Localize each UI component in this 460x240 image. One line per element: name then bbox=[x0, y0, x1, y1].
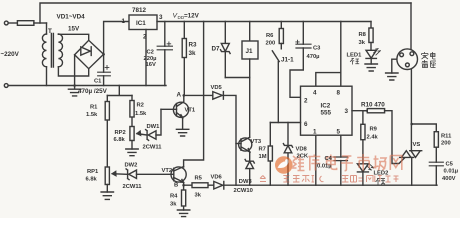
RP1 wiper arrowhead bbox=[112, 172, 116, 176]
capacitor C3 plates bbox=[296, 44, 311, 48]
transistor VT1 base bar bbox=[176, 104, 178, 117]
VT2 emitter bbox=[174, 178, 184, 186]
relay J1 box bbox=[242, 41, 258, 59]
rail corner into R8 bbox=[370, 22, 372, 29]
watermark overlay bbox=[260, 154, 402, 182]
RP2 bottom lead bbox=[131, 141, 133, 150]
svg-text:470µ /25V: 470µ /25V bbox=[78, 88, 108, 95]
VT3 emitter lead bbox=[249, 152, 251, 161]
svg-text:LED2: LED2 bbox=[374, 170, 389, 176]
IC1 pin2 lead bbox=[145, 30, 147, 86]
VT1 circle bbox=[173, 102, 188, 117]
triac VS bbox=[400, 151, 422, 158]
pin6 wire bbox=[270, 122, 300, 124]
potentiometer RP1 bbox=[105, 167, 109, 185]
IC2 pin3 wire bbox=[352, 110, 367, 112]
node B dot bbox=[182, 184, 185, 187]
svg-text:VD1~VD4: VD1~VD4 bbox=[57, 14, 86, 21]
wire R10 to triac gate bbox=[385, 111, 405, 164]
svg-text:C3: C3 bbox=[313, 45, 321, 51]
wire top 220V rail bbox=[40, 3, 411, 23]
svg-text:1M: 1M bbox=[259, 154, 267, 160]
svg-text:C2: C2 bbox=[147, 50, 154, 56]
svg-text:400V: 400V bbox=[442, 176, 456, 182]
svg-text:C1: C1 bbox=[94, 79, 102, 85]
diode VD5 bbox=[213, 92, 224, 100]
svg-text:2CW11: 2CW11 bbox=[123, 184, 143, 190]
resistor R9 bbox=[361, 124, 365, 139]
ground under RP1 bbox=[101, 192, 113, 199]
watermark big row bbox=[292, 154, 402, 171]
svg-text:DW2: DW2 bbox=[125, 163, 138, 169]
triac bottom lead bbox=[411, 157, 413, 185]
svg-text:1: 1 bbox=[122, 18, 126, 25]
zener VD8 bbox=[283, 144, 292, 153]
svg-text:C5: C5 bbox=[446, 161, 454, 167]
socket rail upper bbox=[410, 3, 412, 49]
svg-text:555: 555 bbox=[321, 110, 332, 117]
VT3 emitter arrow bbox=[247, 149, 250, 152]
socket rail lower bbox=[410, 69, 412, 150]
resistor R7 bbox=[268, 146, 272, 161]
char cha bbox=[422, 60, 429, 68]
transformer core bbox=[51, 34, 53, 68]
svg-text:3k: 3k bbox=[170, 202, 177, 208]
zener DW2 bbox=[126, 169, 136, 180]
VT1 emitter arrow bbox=[180, 115, 183, 118]
input terminal N bbox=[4, 84, 8, 88]
svg-text:VT2: VT2 bbox=[162, 168, 173, 174]
socket left wire bbox=[392, 59, 397, 73]
C3 bottom zigzag to pin2 bbox=[290, 48, 303, 97]
svg-text:8: 8 bbox=[337, 90, 341, 97]
resistor R4 bbox=[182, 190, 186, 206]
svg-text:DW3: DW3 bbox=[239, 179, 253, 185]
svg-text:220µ: 220µ bbox=[144, 56, 157, 62]
watermark small row bbox=[260, 176, 399, 183]
svg-text:3: 3 bbox=[159, 14, 163, 21]
VT3 circle bbox=[239, 138, 252, 151]
svg-text:6.8k: 6.8k bbox=[114, 137, 126, 143]
svg-text:200: 200 bbox=[441, 140, 451, 146]
wire secondary bottom to bridge bbox=[58, 67, 88, 76]
svg-text:RP2: RP2 bbox=[115, 130, 126, 136]
svg-text:200: 200 bbox=[266, 40, 276, 46]
input terminal L bbox=[4, 21, 8, 25]
relay J1 lead bottom to VT3 bbox=[249, 59, 251, 137]
capacitor C1 plates bbox=[98, 72, 111, 76]
resistor R2 leads bbox=[131, 96, 133, 127]
potentiometer RP2 bbox=[130, 127, 134, 141]
resistor R1 leads bbox=[106, 96, 108, 168]
C1 plus sign bbox=[105, 66, 109, 70]
wire D7 to J1 line bbox=[225, 77, 249, 79]
char jia bbox=[422, 52, 429, 59]
svg-text:3k: 3k bbox=[189, 50, 197, 57]
VT1 emitter bbox=[177, 113, 183, 130]
svg-text:J1-1: J1-1 bbox=[281, 57, 294, 64]
bridge inner diode bbox=[81, 47, 91, 56]
svg-text:3k: 3k bbox=[195, 193, 202, 199]
resistor R1 bbox=[105, 102, 109, 121]
12V rail from IC1 pin3 bbox=[157, 21, 371, 23]
IC2 pin5 lead bbox=[340, 135, 342, 185]
DW1 to VT1 base riser bbox=[156, 109, 161, 135]
R8 to LED1 lead bbox=[370, 43, 372, 51]
svg-text:C4: C4 bbox=[325, 156, 333, 162]
resistor R2 bbox=[130, 101, 134, 118]
resistor R8 bbox=[369, 28, 373, 43]
svg-text:2: 2 bbox=[304, 98, 308, 105]
transistor VT3 bbox=[241, 137, 250, 152]
VT2 collector bbox=[174, 167, 184, 172]
svg-text:R4: R4 bbox=[170, 194, 178, 200]
node R9 junction bbox=[366, 109, 369, 112]
bridge rectifier VD1~VD4 diamond bbox=[75, 40, 104, 68]
svg-text:A: A bbox=[177, 92, 182, 99]
wire node A row bbox=[184, 94, 213, 96]
text red CJK bbox=[350, 59, 359, 65]
LED2 bottom lead bbox=[362, 172, 364, 185]
wire VD5 to VT3 base riser bbox=[223, 95, 236, 185]
VT2 emitter arrow bbox=[181, 179, 184, 182]
R11 branch wire bbox=[412, 124, 437, 132]
VT3 base stub bbox=[236, 143, 241, 145]
svg-text:3: 3 bbox=[345, 108, 349, 115]
ground under LED1 bbox=[365, 64, 377, 71]
svg-text:DW1: DW1 bbox=[147, 124, 161, 130]
svg-text:6.8k: 6.8k bbox=[86, 176, 98, 182]
transformer T primary winding bbox=[42, 34, 46, 67]
IC1 7812 box bbox=[129, 15, 157, 30]
resistor R4 leads bbox=[183, 185, 185, 210]
char zuo bbox=[431, 61, 437, 68]
IC2 pin1 lead bbox=[315, 135, 317, 185]
svg-text:R5: R5 bbox=[195, 176, 203, 182]
C2 plus sign bbox=[167, 42, 171, 46]
capacitor C1 lead bbox=[103, 54, 105, 85]
capacitor C2 top lead bbox=[164, 22, 166, 47]
LED1 bbox=[366, 50, 376, 58]
svg-text:2CW11: 2CW11 bbox=[143, 145, 163, 151]
RP1 bottom lead bbox=[106, 185, 108, 193]
svg-text:1.5k: 1.5k bbox=[135, 111, 147, 117]
LED2 bbox=[357, 164, 368, 172]
R1 R2 top tee bbox=[107, 86, 132, 96]
svg-text:0.01µ: 0.01µ bbox=[444, 168, 459, 174]
ground under R4 bbox=[177, 210, 189, 217]
svg-text:VD5: VD5 bbox=[211, 85, 223, 91]
node triac branch bbox=[410, 123, 413, 126]
svg-text:R6: R6 bbox=[266, 33, 274, 39]
svg-text:3k: 3k bbox=[359, 40, 366, 46]
svg-text:R11: R11 bbox=[441, 133, 452, 139]
svg-text:1.5k: 1.5k bbox=[86, 112, 98, 118]
pin8 stub bbox=[340, 73, 342, 87]
resistor R6 lead bbox=[280, 22, 282, 29]
svg-text:T: T bbox=[48, 28, 52, 35]
svg-text:6: 6 bbox=[304, 121, 308, 128]
bottom rail bbox=[184, 184, 437, 186]
contact J1-1 bbox=[272, 44, 281, 62]
wire rail to VT2 collector bbox=[184, 22, 204, 168]
text green CJK bbox=[376, 179, 386, 185]
svg-text:VD6: VD6 bbox=[211, 174, 223, 180]
zener VD8 leads bbox=[287, 123, 289, 186]
svg-text:R10 470: R10 470 bbox=[361, 101, 385, 108]
resistor R3 leads bbox=[183, 22, 185, 96]
svg-text:VS: VS bbox=[413, 142, 421, 148]
svg-text:VT1: VT1 bbox=[185, 108, 196, 114]
svg-text:0.01µ: 0.01µ bbox=[317, 163, 332, 169]
transformer primary lead bottom bbox=[46, 67, 48, 86]
capacitor C4 plates bbox=[334, 157, 348, 161]
svg-text:B: B bbox=[174, 183, 178, 189]
wire secondary top to bridge bbox=[58, 34, 88, 40]
transformer T secondary winding bbox=[58, 34, 62, 67]
svg-text:IC2: IC2 bbox=[321, 103, 331, 110]
svg-text:R1: R1 bbox=[90, 105, 98, 111]
VT2 circle bbox=[171, 167, 186, 182]
LED1 bottom lead bbox=[370, 58, 372, 64]
wire J1-1 to pin6 net bbox=[277, 62, 279, 123]
RP2 wiper arrowhead bbox=[137, 131, 141, 135]
fuse FU bbox=[17, 21, 34, 26]
svg-text:R8: R8 bbox=[359, 32, 367, 38]
ground under VT1 bbox=[176, 129, 188, 136]
svg-text:5: 5 bbox=[337, 129, 341, 136]
svg-text:16V: 16V bbox=[146, 62, 156, 68]
svg-text:=12V: =12V bbox=[184, 13, 200, 20]
DW2 to VT2 base wire bbox=[137, 173, 174, 175]
transistor VT2 base bar bbox=[173, 168, 175, 181]
RP1 wiper arrow bbox=[112, 173, 126, 176]
node bridge right bbox=[102, 53, 105, 56]
VT1 base wire bbox=[161, 108, 177, 110]
svg-text:2CK: 2CK bbox=[297, 154, 309, 160]
resistor R6 bbox=[279, 29, 283, 44]
svg-text:R3: R3 bbox=[189, 42, 198, 49]
C3 plus sign bbox=[296, 40, 299, 43]
svg-text:4: 4 bbox=[313, 90, 317, 97]
node A dot bbox=[183, 94, 186, 97]
svg-text:RP1: RP1 bbox=[87, 169, 99, 175]
svg-text:R9: R9 bbox=[370, 126, 378, 132]
svg-text:2: 2 bbox=[143, 34, 147, 41]
resistor R9 leads bbox=[363, 111, 367, 164]
zener D7 bbox=[221, 43, 231, 53]
svg-text:R2: R2 bbox=[137, 103, 144, 109]
svg-text:VT3: VT3 bbox=[251, 139, 262, 145]
svg-text:LED1: LED1 bbox=[347, 53, 363, 59]
capacitor C5 plates bbox=[429, 162, 443, 166]
resistor R5 bbox=[192, 183, 208, 188]
neutral bottom wire bbox=[8, 85, 166, 87]
svg-text:15V: 15V bbox=[68, 26, 80, 33]
svg-text:2.4k: 2.4k bbox=[367, 134, 379, 140]
svg-text:J1: J1 bbox=[246, 48, 254, 55]
svg-text:7812: 7812 bbox=[132, 7, 147, 14]
resistor R11 bbox=[434, 132, 438, 148]
svg-text:D7: D7 bbox=[212, 46, 221, 53]
transformer T primary lead top bbox=[46, 23, 48, 34]
wire terminal to fuse bbox=[8, 22, 17, 24]
VT1 collector bbox=[177, 95, 184, 106]
ground at socket bbox=[386, 73, 398, 80]
capacitor C3 top lead bbox=[302, 22, 304, 45]
ground under RP2 bbox=[126, 149, 138, 156]
resistor R3 bbox=[182, 39, 186, 58]
zener D7 lead bbox=[224, 22, 226, 78]
svg-text:IC1: IC1 bbox=[136, 20, 146, 27]
svg-text:~220V: ~220V bbox=[1, 51, 20, 58]
zener DW1 bbox=[146, 130, 156, 141]
wire bridge right corner up to IC1 pin1 bbox=[104, 22, 129, 55]
C2 bottom lead bbox=[164, 50, 166, 86]
LED2 arrows bbox=[367, 164, 374, 170]
LED1 arrows bbox=[374, 49, 381, 55]
RP2 wiper arrow bbox=[137, 134, 147, 135]
IC2 555 box bbox=[301, 86, 353, 135]
DW3 bottom lead bbox=[249, 169, 251, 186]
resistor R10 bbox=[367, 109, 384, 113]
wire bridge left corner to neutral bbox=[74, 55, 76, 86]
svg-text:VD8: VD8 bbox=[296, 147, 308, 153]
relay J1 lead top bbox=[249, 22, 251, 42]
watermark logo circle bbox=[275, 156, 293, 174]
appliance socket circle bbox=[397, 49, 418, 70]
resistor R7 leads bbox=[269, 123, 271, 186]
svg-text:470µ: 470µ bbox=[307, 54, 320, 60]
svg-text:2CW10: 2CW10 bbox=[234, 188, 253, 194]
socket pin holes bbox=[400, 53, 404, 57]
capacitor C2 plates bbox=[157, 46, 172, 50]
node bridge-neutral junction bbox=[73, 84, 76, 87]
wire 4-8 pins to rail bbox=[316, 22, 341, 87]
zener DW3 bbox=[245, 159, 254, 168]
svg-text:R7: R7 bbox=[259, 147, 266, 153]
text appliance socket CJK bbox=[422, 52, 437, 68]
R11 to C5 lead bbox=[435, 147, 437, 185]
ground at bridge bbox=[68, 86, 80, 96]
svg-text:1: 1 bbox=[313, 129, 317, 136]
diode VD6 bbox=[214, 181, 224, 189]
wire fuse to junction bbox=[34, 22, 47, 24]
char dian bbox=[431, 52, 436, 59]
